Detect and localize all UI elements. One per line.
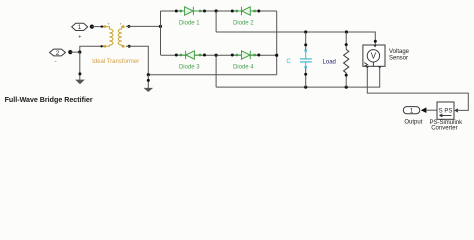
junction node top mid (DC+) (215, 9, 218, 12)
wire top mid drop (215, 11, 217, 32)
svg-text:V: V (371, 52, 377, 61)
svg-text:S PS: S PS (439, 108, 453, 114)
transformer U1 (Ideal Transformer) (104, 21, 125, 47)
ground G2 (electrical reference) (144, 88, 154, 92)
right AC bus wire (276, 11, 278, 75)
port 2 connection dot (68, 50, 72, 54)
PS-Simulink converter U3 (437, 102, 458, 119)
svg-text:Diode 1: Diode 1 (179, 20, 200, 26)
left AC bus wire (160, 11, 162, 55)
diode D1 (180, 7, 202, 15)
load resistor wires (345, 32, 347, 49)
transformer secondary bottom port dot (128, 45, 131, 48)
capacitor C port dots (304, 43, 307, 46)
svg-text:Diode 2: Diode 2 (233, 20, 254, 26)
D1 connection dots (175, 10, 178, 13)
wire AC2: secondary bottom to right bus (126, 46, 277, 74)
svg-text:Converter: Converter (431, 125, 457, 131)
svg-text:Diode 3: Diode 3 (179, 64, 200, 70)
wire port2 to transformer bottom-left (70, 46, 104, 52)
ground G2 port dot (147, 79, 150, 82)
wire secondary top to left bus (126, 25, 161, 27)
wire to ground G1 (79, 52, 81, 80)
voltage sensor U2 (363, 45, 385, 69)
svg-text:C: C (286, 59, 291, 65)
diode D3 (180, 51, 202, 59)
svg-text:Diode 4: Diode 4 (233, 64, 254, 70)
svg-text:Output: Output (404, 120, 422, 126)
junction node D4 right bus (275, 54, 278, 57)
junction node load bottom (345, 86, 348, 89)
output signal arrowhead (421, 107, 427, 113)
wire bottom mid drop (215, 55, 217, 87)
svg-text:Full-Wave Bridge Rectifier: Full-Wave Bridge Rectifier (5, 96, 93, 104)
resistor Load (344, 49, 349, 72)
load port dots (345, 43, 348, 46)
port 1 connection dot (90, 25, 94, 29)
transformer primary bottom port dot (100, 45, 102, 47)
svg-text:-: - (55, 59, 57, 65)
capacitor C (300, 49, 312, 68)
junction node cap bottom (304, 86, 307, 89)
junction node ground 2 (147, 73, 150, 76)
svg-text:Sensor: Sensor (389, 55, 408, 61)
junction node cap top (304, 30, 307, 33)
ground G1 (electrical reference) (75, 80, 85, 85)
svg-text:Ideal Transformer: Ideal Transformer (92, 59, 139, 65)
diode D2 (236, 7, 256, 15)
junction node bottom mid (DC-) (215, 54, 218, 57)
svg-text:Load: Load (323, 59, 336, 65)
diode D4 (236, 51, 256, 59)
junction node port2/ground (78, 51, 81, 54)
D3 connection dots (175, 54, 178, 57)
output port 1 (403, 107, 420, 115)
port 1 (72, 23, 88, 31)
svg-text:+: + (78, 34, 81, 40)
port 2 (50, 49, 66, 57)
transformer secondary top port dot (127, 25, 130, 28)
svg-text:Voltage: Voltage (389, 49, 410, 55)
junction node AC1 on left bus (159, 25, 162, 28)
DC+ mid bus wire (216, 32, 375, 45)
junction node load top (345, 30, 348, 33)
wire to ground G2 (147, 75, 149, 88)
wire converter to output (426, 109, 437, 111)
top row wire (161, 10, 277, 12)
D4 connection dots (231, 54, 234, 57)
wire sensor PS out to converter (367, 68, 468, 110)
ground G1 port dot (78, 72, 81, 75)
capacitor C wires (305, 32, 307, 50)
sensor top port dot (374, 40, 377, 43)
D2 connection dots (231, 10, 234, 13)
wire port1 to transformer (92, 26, 104, 28)
DC- bottom bus wire (216, 66, 380, 87)
transformer primary top port dot (101, 25, 103, 27)
lower row wire (161, 54, 277, 56)
